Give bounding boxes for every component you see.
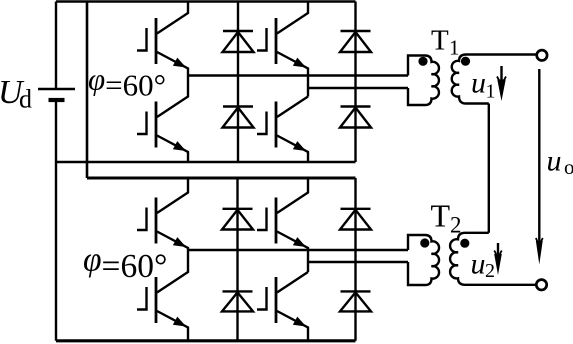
diode VD4	[340, 107, 371, 128]
wire bridge 1 output node b (line2)	[308, 87, 408, 89]
output terminal top	[537, 50, 547, 60]
svg-text:u: u	[471, 67, 486, 100]
IGBT V3 gate	[257, 28, 268, 52]
wire battery positive to top rail	[55, 2, 57, 90]
svg-text:u: u	[547, 145, 562, 178]
svg-text:T: T	[431, 198, 451, 234]
IGBT V7 emitter arrow	[293, 237, 306, 247]
IGBT V2 collector	[157, 76, 188, 118]
IGBT V5 emitter arrow	[173, 237, 186, 247]
polarity dot T2 primary	[420, 238, 429, 247]
IGBT V5 collector	[157, 178, 188, 213]
IGBT V7 body bar	[275, 198, 278, 244]
diode VD7	[340, 209, 371, 230]
svg-text:d: d	[19, 85, 32, 114]
diode VD1	[223, 31, 254, 52]
label T2	[431, 198, 462, 238]
IGBT V8 collector	[277, 272, 308, 293]
battery positive plate	[38, 88, 75, 90]
transformer T1 secondary winding	[452, 55, 536, 104]
wire bridge 2 top rail	[87, 177, 356, 180]
IGBT V6 body bar	[155, 277, 158, 323]
IGBT V7 gate	[257, 208, 268, 232]
wire bridge 2 output node b (line2)	[308, 261, 408, 263]
IGBT V4 emitter arrow	[293, 141, 306, 151]
transformer T1 primary winding	[408, 56, 439, 106]
diode VD5	[222, 209, 253, 230]
diode VD8	[340, 291, 371, 311]
IGBT V8 emitter arrow	[293, 317, 306, 327]
svg-text:φ=60°: φ=60°	[88, 62, 166, 103]
label u1	[471, 67, 496, 103]
IGBT V1 collector	[157, 2, 188, 34]
arrow u_o	[536, 69, 543, 265]
wire battery negative bus	[55, 100, 57, 341]
IGBT V1 gate	[137, 28, 148, 52]
IGBT V3 collector	[277, 2, 308, 34]
wire u1 to u2 series link	[488, 104, 490, 233]
transformer T2 secondary winding	[450, 233, 535, 285]
wire bridge 1 bottom rail	[56, 161, 356, 164]
svg-text:o: o	[564, 155, 573, 179]
IGBT V1 body bar	[155, 18, 158, 64]
svg-text:u: u	[471, 248, 486, 281]
IGBT V6 emitter arrow	[173, 317, 186, 327]
output terminal bottom	[536, 280, 546, 290]
IGBT V6 gate	[137, 287, 148, 311]
svg-text:1: 1	[449, 36, 460, 60]
IGBT V8 gate	[257, 287, 268, 311]
IGBT V1 emitter	[157, 52, 188, 76]
polarity dot T1 secondary	[461, 57, 470, 66]
IGBT V3 emitter	[277, 52, 308, 97]
label u2	[471, 248, 496, 283]
wire diode leg D (bridge 1, right edge)	[354, 2, 356, 163]
arrow u2	[494, 243, 502, 275]
IGBT V3 body bar	[275, 18, 278, 64]
label U_d	[0, 74, 32, 114]
wire diode leg B (bridge 2)	[236, 178, 238, 341]
svg-text:1: 1	[486, 81, 496, 103]
IGBT V7 emitter	[277, 232, 308, 273]
polarity dot T2 secondary	[460, 239, 469, 248]
IGBT V6 collector	[157, 250, 188, 293]
transformer T2 primary winding	[408, 235, 439, 285]
diode VD2	[223, 107, 254, 128]
IGBT V7 collector	[277, 178, 308, 213]
IGBT V1 emitter arrow	[173, 58, 186, 68]
wire DC bus drop (bridge 1 left edge)	[86, 2, 89, 179]
IGBT V3 emitter arrow	[293, 58, 306, 68]
IGBT V4 gate	[257, 112, 268, 136]
IGBT V5 emitter	[157, 232, 188, 251]
IGBT V8 emitter	[277, 311, 308, 341]
IGBT V4 body bar	[275, 102, 278, 148]
wire diode leg D (bridge 2, right edge)	[354, 178, 356, 341]
wire top DC rail	[56, 0, 356, 3]
arrow u1	[497, 66, 506, 101]
diode VD3	[340, 31, 371, 52]
IGBT V2 emitter	[157, 136, 188, 163]
polarity dot T1 primary	[418, 57, 427, 66]
IGBT V8 body bar	[275, 277, 278, 323]
wire bridge 2 bottom rail	[56, 339, 356, 342]
label T1	[431, 25, 460, 60]
IGBT V2 emitter arrow	[173, 141, 186, 151]
label u_o	[547, 145, 573, 180]
IGBT V5 gate	[137, 208, 148, 232]
IGBT V2 gate	[137, 112, 148, 136]
IGBT V4 emitter	[277, 136, 308, 163]
IGBT V4 collector	[277, 97, 308, 118]
IGBT V5 body bar	[155, 198, 158, 244]
wire bridge 2 output node a (line1)	[188, 249, 408, 251]
diode VD6	[222, 291, 253, 311]
svg-text:2: 2	[485, 260, 495, 282]
battery negative plate	[49, 98, 65, 102]
svg-text:T: T	[431, 25, 449, 57]
wire bridge 1 output node a (line1)	[188, 74, 408, 76]
wire diode leg B (bridge 1)	[237, 2, 239, 163]
IGBT V2 body bar	[155, 102, 158, 148]
IGBT V6 emitter	[157, 311, 188, 341]
